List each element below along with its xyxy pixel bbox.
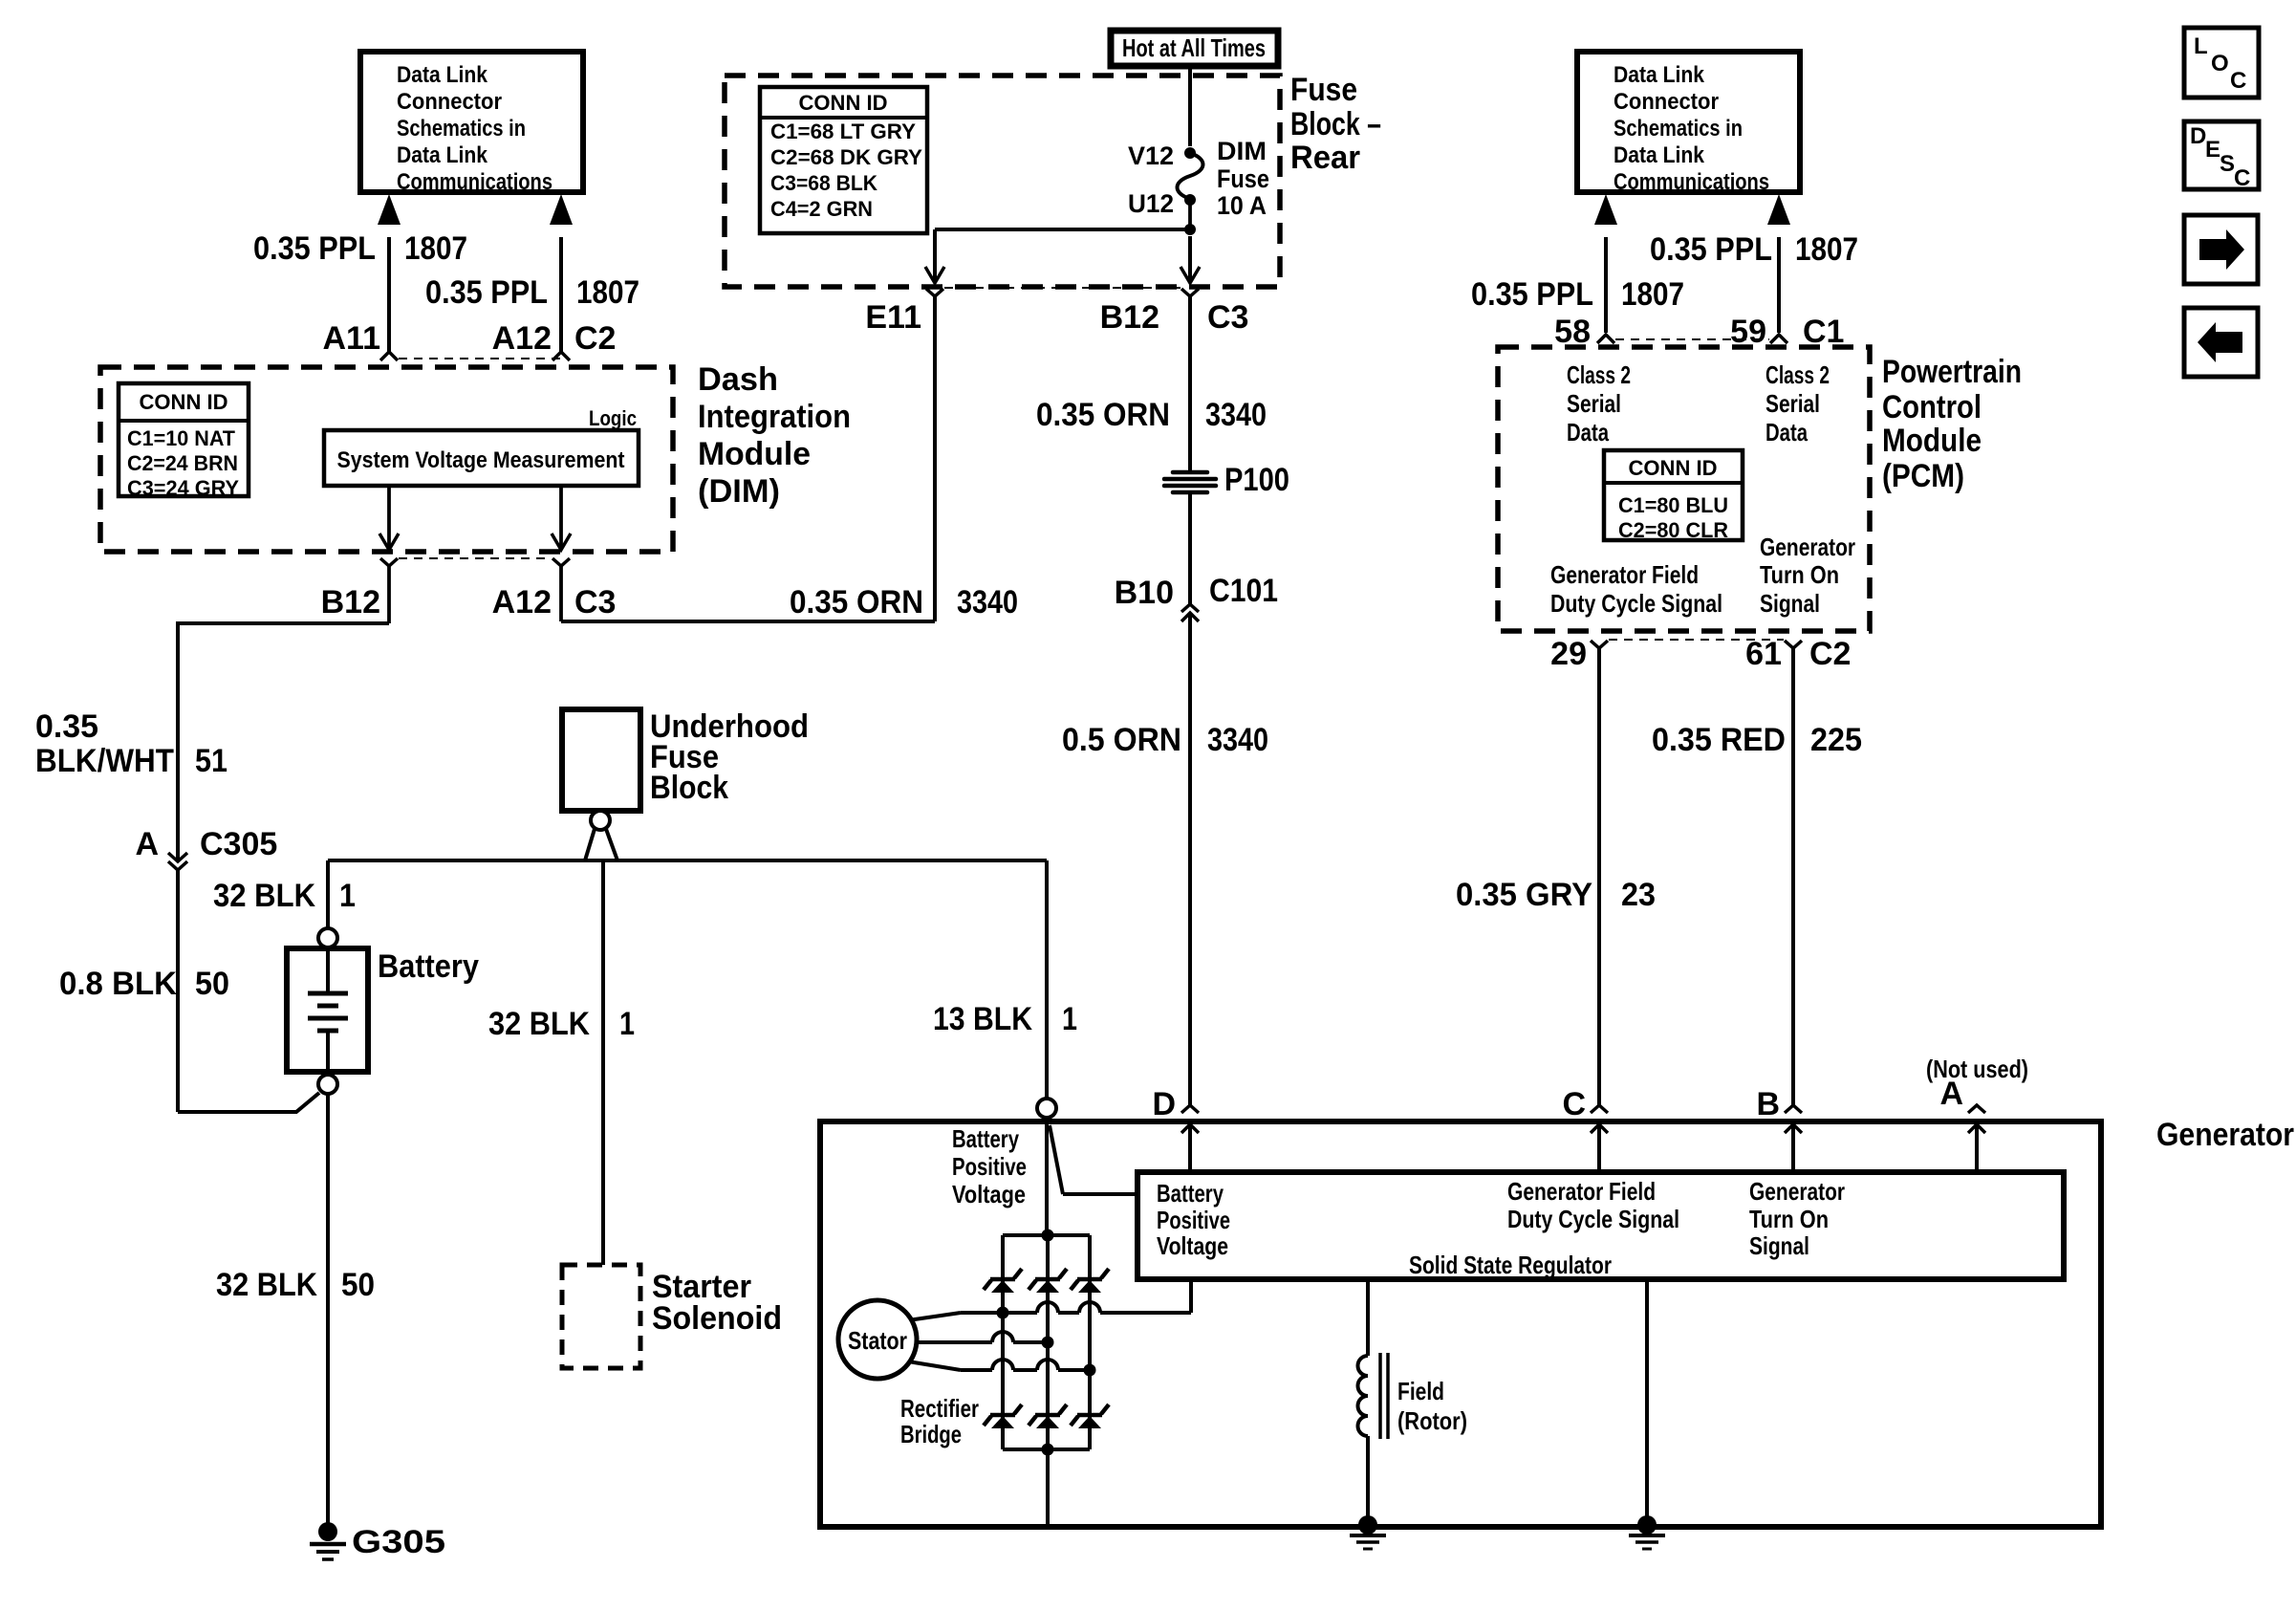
svg-text:C305: C305 xyxy=(200,826,277,862)
svg-text:S: S xyxy=(2220,151,2235,177)
svg-text:C: C xyxy=(1562,1086,1586,1122)
svg-text:Voltage: Voltage xyxy=(952,1180,1026,1208)
svg-text:Module: Module xyxy=(698,436,811,472)
svg-text:0.35 GRY: 0.35 GRY xyxy=(1456,877,1592,913)
svg-text:32 BLK: 32 BLK xyxy=(488,1006,590,1042)
svg-text:E: E xyxy=(2205,137,2220,163)
svg-text:C2=80 CLR: C2=80 CLR xyxy=(1618,518,1728,542)
svg-text:BLK/WHT: BLK/WHT xyxy=(35,743,174,779)
svg-text:B10: B10 xyxy=(1115,575,1174,611)
svg-text:Fuse: Fuse xyxy=(1217,164,1269,193)
svg-text:D: D xyxy=(2190,123,2206,149)
svg-text:A12: A12 xyxy=(492,320,552,357)
svg-text:A11: A11 xyxy=(323,320,381,357)
svg-text:B: B xyxy=(1756,1086,1780,1122)
svg-text:Positive: Positive xyxy=(1157,1206,1230,1234)
svg-text:C1=68 LT GRY: C1=68 LT GRY xyxy=(770,120,916,143)
svg-text:C3=24 GRY: C3=24 GRY xyxy=(127,476,239,500)
svg-text:G305: G305 xyxy=(352,1524,445,1560)
svg-text:C1=10 NAT: C1=10 NAT xyxy=(127,426,236,450)
svg-text:Generator Field: Generator Field xyxy=(1550,560,1699,589)
svg-text:O: O xyxy=(2211,51,2229,76)
svg-text:Battery: Battery xyxy=(378,948,479,985)
svg-text:C1=80 BLU: C1=80 BLU xyxy=(1618,493,1728,517)
svg-text:Block: Block xyxy=(650,770,728,806)
svg-text:DIM: DIM xyxy=(1217,137,1267,165)
svg-text:Field: Field xyxy=(1397,1377,1444,1405)
svg-text:0.5 ORN: 0.5 ORN xyxy=(1062,722,1181,758)
svg-text:A12: A12 xyxy=(492,584,552,620)
svg-text:Bridge: Bridge xyxy=(900,1420,962,1448)
svg-text:Class 2: Class 2 xyxy=(1567,360,1631,389)
svg-text:Logic: Logic xyxy=(589,406,637,430)
svg-text:C2=68 DK GRY: C2=68 DK GRY xyxy=(770,145,922,169)
svg-text:Control: Control xyxy=(1882,389,1982,425)
svg-text:Fuse: Fuse xyxy=(1290,72,1357,108)
svg-text:Connector: Connector xyxy=(1614,89,1719,115)
svg-text:C3: C3 xyxy=(1207,299,1248,336)
svg-text:D: D xyxy=(1152,1086,1176,1122)
svg-text:(Not used): (Not used) xyxy=(1926,1055,2028,1083)
svg-text:C2: C2 xyxy=(1809,636,1851,672)
svg-text:1: 1 xyxy=(339,878,356,914)
svg-text:Stator: Stator xyxy=(848,1326,907,1355)
svg-text:1807: 1807 xyxy=(576,274,639,311)
svg-text:Turn On: Turn On xyxy=(1749,1205,1829,1233)
svg-text:1: 1 xyxy=(619,1006,635,1042)
svg-text:CONN ID: CONN ID xyxy=(1629,456,1718,480)
svg-text:3340: 3340 xyxy=(1205,397,1267,433)
svg-text:1807: 1807 xyxy=(1795,231,1858,268)
svg-text:A: A xyxy=(135,826,159,862)
svg-text:System Voltage Measurement: System Voltage Measurement xyxy=(337,447,625,473)
svg-text:C2=24 BRN: C2=24 BRN xyxy=(127,451,238,475)
svg-text:CONN ID: CONN ID xyxy=(140,390,228,414)
svg-text:Solenoid: Solenoid xyxy=(652,1300,782,1337)
svg-text:Duty Cycle Signal: Duty Cycle Signal xyxy=(1550,589,1722,618)
svg-text:Schematics in: Schematics in xyxy=(1614,116,1743,142)
svg-text:C101: C101 xyxy=(1209,573,1278,609)
svg-text:Connector: Connector xyxy=(397,89,502,115)
svg-text:50: 50 xyxy=(195,966,229,1002)
svg-text:0.35 PPL: 0.35 PPL xyxy=(425,274,548,311)
svg-text:Communications: Communications xyxy=(397,169,552,195)
svg-text:32 BLK: 32 BLK xyxy=(213,878,315,914)
svg-text:Rear: Rear xyxy=(1290,140,1360,176)
svg-text:3340: 3340 xyxy=(957,584,1018,620)
svg-text:Serial: Serial xyxy=(1567,389,1621,418)
svg-text:Data: Data xyxy=(1567,418,1609,446)
svg-text:(DIM): (DIM) xyxy=(698,473,780,510)
svg-text:C2: C2 xyxy=(574,320,616,357)
svg-text:225: 225 xyxy=(1810,722,1862,758)
svg-text:Rectifier: Rectifier xyxy=(900,1394,979,1423)
svg-text:CONN ID: CONN ID xyxy=(799,91,888,115)
svg-text:0.35: 0.35 xyxy=(35,708,98,745)
svg-text:32 BLK: 32 BLK xyxy=(216,1267,317,1303)
svg-text:Integration: Integration xyxy=(698,399,851,435)
svg-text:Positive: Positive xyxy=(952,1152,1027,1181)
svg-text:Schematics in: Schematics in xyxy=(397,116,526,142)
svg-text:E11: E11 xyxy=(865,299,921,336)
svg-text:Data Link: Data Link xyxy=(1614,142,1705,168)
svg-text:L: L xyxy=(2194,33,2208,59)
svg-text:0.35 PPL: 0.35 PPL xyxy=(253,230,376,267)
svg-text:Voltage: Voltage xyxy=(1157,1231,1228,1260)
svg-text:0.35 PPL: 0.35 PPL xyxy=(1471,276,1593,313)
svg-text:29: 29 xyxy=(1550,636,1587,672)
svg-text:B12: B12 xyxy=(1100,299,1159,336)
svg-text:1: 1 xyxy=(1062,1001,1077,1037)
svg-text:0.35 ORN: 0.35 ORN xyxy=(790,584,923,620)
svg-text:0.35 ORN: 0.35 ORN xyxy=(1036,397,1170,433)
svg-text:Battery: Battery xyxy=(1157,1179,1224,1208)
svg-text:Turn On: Turn On xyxy=(1760,560,1839,589)
svg-text:Solid State Regulator: Solid State Regulator xyxy=(1409,1251,1612,1279)
svg-text:B12: B12 xyxy=(321,584,380,620)
svg-text:C: C xyxy=(2234,165,2250,191)
svg-text:23: 23 xyxy=(1621,877,1656,913)
svg-text:Duty Cycle Signal: Duty Cycle Signal xyxy=(1507,1205,1679,1233)
svg-text:10 A: 10 A xyxy=(1217,191,1267,220)
svg-text:Data Link: Data Link xyxy=(397,142,488,168)
svg-text:U12: U12 xyxy=(1128,189,1174,218)
svg-text:1807: 1807 xyxy=(1621,276,1684,313)
svg-text:Data Link: Data Link xyxy=(1614,62,1705,88)
svg-text:0.8 BLK: 0.8 BLK xyxy=(59,966,177,1002)
svg-text:Dash: Dash xyxy=(698,361,778,398)
svg-text:C3=68 BLK: C3=68 BLK xyxy=(770,171,877,195)
svg-text:13 BLK: 13 BLK xyxy=(933,1001,1032,1037)
svg-text:(Rotor): (Rotor) xyxy=(1397,1406,1467,1435)
svg-text:Class 2: Class 2 xyxy=(1765,360,1830,389)
svg-text:Serial: Serial xyxy=(1765,389,1820,418)
svg-text:Generator: Generator xyxy=(1760,533,1855,561)
svg-text:Signal: Signal xyxy=(1749,1231,1809,1260)
svg-text:51: 51 xyxy=(195,743,227,779)
svg-text:Communications: Communications xyxy=(1614,169,1769,195)
svg-text:C: C xyxy=(2230,68,2246,94)
svg-text:Powertrain: Powertrain xyxy=(1882,354,2022,390)
svg-text:Block –: Block – xyxy=(1290,106,1381,142)
svg-text:50: 50 xyxy=(341,1267,375,1303)
svg-text:Signal: Signal xyxy=(1760,589,1820,618)
svg-text:Module: Module xyxy=(1882,423,1982,459)
svg-text:0.35 RED: 0.35 RED xyxy=(1652,722,1786,758)
svg-text:0.35 PPL: 0.35 PPL xyxy=(1650,231,1772,268)
svg-text:Generator: Generator xyxy=(2156,1117,2294,1153)
svg-text:Data Link: Data Link xyxy=(397,62,488,88)
svg-text:1807: 1807 xyxy=(404,230,467,267)
svg-text:Battery: Battery xyxy=(952,1124,1019,1153)
svg-text:C3: C3 xyxy=(574,584,616,620)
svg-text:(PCM): (PCM) xyxy=(1882,458,1964,494)
svg-text:Hot at All Times: Hot at All Times xyxy=(1122,33,1266,62)
svg-text:V12: V12 xyxy=(1128,142,1174,170)
svg-text:Generator: Generator xyxy=(1749,1177,1845,1206)
svg-text:Generator Field: Generator Field xyxy=(1507,1177,1656,1206)
svg-text:Data: Data xyxy=(1765,418,1808,446)
svg-text:C4=2 GRN: C4=2 GRN xyxy=(770,197,873,221)
svg-text:61: 61 xyxy=(1745,636,1782,672)
svg-text:P100: P100 xyxy=(1224,462,1289,498)
svg-text:3340: 3340 xyxy=(1207,722,1268,758)
